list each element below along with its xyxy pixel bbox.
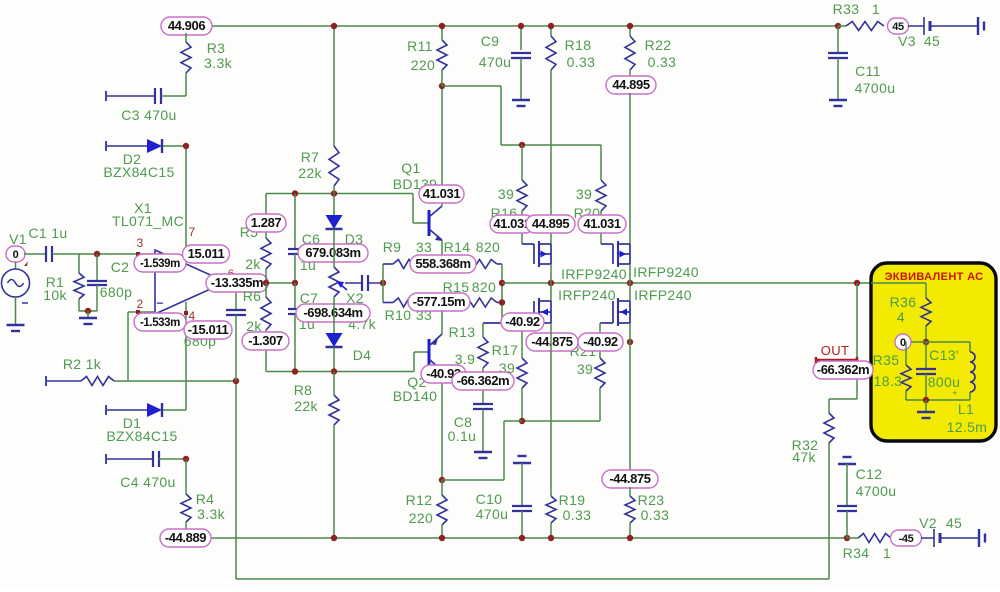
resistor R7 22k [333,26,335,146]
svg-text:OUT: OUT [821,343,850,358]
svg-text:R4: R4 [196,491,215,507]
diode D4 [333,297,335,333]
svg-text:0: 0 [13,249,19,261]
capacitor C5 680p feedback [235,283,237,310]
node oval -44.875 at R23 [602,470,658,488]
svg-text:39: 39 [576,186,592,202]
wire pin 2 [128,311,155,313]
svg-text:R34: R34 [843,545,870,561]
wire Q2 emitter [441,303,443,335]
svg-text:-45: -45 [899,533,914,545]
resistor R9 33 [383,263,393,265]
node oval -40.92 Q2 collector [421,365,466,383]
resistor R5 2k [265,194,267,239]
svg-text:33: 33 [416,239,432,255]
ground at V1 [7,325,25,331]
wire R11 to gate bias node [442,85,501,87]
svg-text:V2: V2 [919,515,937,531]
svg-text:-1.533m: -1.533m [140,317,180,329]
resistor R33 1 [835,23,841,29]
svg-text:L1: L1 [958,401,974,417]
resistor R10 33 [383,302,393,304]
svg-text:45: 45 [924,33,940,49]
capacitor C10 470u [521,463,523,506]
svg-text:470u: 470u [476,506,509,522]
wire op-amp output [226,282,295,284]
wire R1/C2 to ground [79,310,97,312]
svg-text:0: 0 [900,337,906,349]
wire gate row link [382,264,384,303]
svg-text:45: 45 [892,21,904,33]
svg-text:39: 39 [498,186,514,202]
ground at C8 [474,452,492,458]
wire Q2 collector [441,371,443,480]
svg-text:679.083m: 679.083m [305,245,360,260]
svg-text:44.906: 44.906 [168,18,206,33]
node oval 45 [888,18,909,34]
node oval -698.634m [296,304,370,322]
node oval -1.307 [242,332,289,350]
ground at V3 [978,17,984,35]
svg-text:C9: C9 [481,33,500,49]
svg-text:-1.539m: -1.539m [140,258,180,270]
svg-text:-66.362m: -66.362m [817,362,869,377]
svg-text:15.011: 15.011 [188,246,225,261]
battery V2 45 [921,537,934,539]
svg-text:0.33: 0.33 [641,507,670,523]
mosfet M3 IRFP240 [550,283,552,301]
svg-text:4700u: 4700u [856,483,897,499]
wire box bottom [906,399,970,401]
svg-text:0.33: 0.33 [648,54,677,70]
svg-text:3.3k: 3.3k [204,55,233,71]
node oval 1.287 [246,214,286,232]
inductor L1 12.5m [969,342,971,352]
svg-text:C13': C13' [929,347,959,363]
svg-text:-40.92: -40.92 [505,314,540,329]
diode D3 [333,194,335,216]
svg-text:41.031: 41.031 [583,216,621,231]
node oval -45 [891,530,922,546]
node 0 oval at V1 [6,246,25,262]
svg-text:0.33: 0.33 [567,54,596,70]
svg-text:C12: C12 [856,466,883,482]
ground at V2 [979,529,985,547]
svg-text:7: 7 [188,225,195,239]
wire output rail [502,282,871,284]
svg-text:BD140: BD140 [393,388,438,404]
svg-text:41.031: 41.031 [423,186,461,201]
mosfet M2 IRFP9240 [601,241,630,267]
svg-text:R10: R10 [385,307,412,323]
resistor R21 39 [599,323,601,358]
svg-text:R14: R14 [444,239,471,255]
node oval -15.011 [184,321,232,339]
svg-text:4700u: 4700u [855,80,896,96]
svg-text:R19: R19 [559,492,586,508]
svg-text:R8: R8 [294,382,313,398]
node oval -13.335m [206,274,268,292]
svg-text:-40.92: -40.92 [583,334,618,349]
svg-text:220: 220 [409,510,433,526]
capacitor C1 1u [46,246,52,262]
svg-text:22k: 22k [294,398,318,414]
svg-text:558.368m: 558.368m [415,256,470,271]
svg-text:-15.011: -15.011 [188,322,229,337]
resistor R11 220 [441,26,443,40]
node oval 679.083m [298,244,368,262]
svg-text:R7: R7 [301,149,320,165]
wire R35 top [906,341,926,343]
ground above C12 [838,457,856,464]
svg-text:Q1: Q1 [401,160,420,176]
svg-text:680p: 680p [100,284,133,300]
node oval -1.539m [134,254,186,272]
svg-text:R35: R35 [873,352,900,368]
svg-text:R23: R23 [638,492,665,508]
svg-text:C10: C10 [476,491,503,507]
wire Q2 base [413,352,415,372]
ground in box [917,412,935,418]
svg-text:C3 470u: C3 470u [121,107,176,123]
svg-text:2: 2 [136,297,143,311]
svg-text:220: 220 [411,57,435,73]
ground at C11 [829,100,847,106]
resistor R1 10k [78,254,80,273]
transistor Q2 BD140 [428,339,431,366]
svg-text:R33: R33 [833,1,860,17]
node oval 558.368m [410,255,476,273]
svg-text:41.031: 41.031 [493,216,531,231]
svg-text:2k: 2k [245,256,261,272]
potentiometer X2 4.7k [329,267,339,297]
resistor R18 0.33 [550,26,552,36]
node oval -40.92 lower gate 1 [501,313,544,331]
svg-text:R6: R6 [243,288,262,304]
svg-text:ЭКВИВАЛЕНТ АС: ЭКВИВАЛЕНТ АС [885,271,984,283]
capacitor C2 680p [96,254,98,281]
svg-text:−: − [156,296,163,310]
resistor R13 3.9 [482,323,484,337]
wire output to OUT node [856,283,858,399]
resistor R34 1 [844,535,850,541]
svg-text:3: 3 [136,236,143,250]
resistor R6 2k [265,283,267,297]
svg-text:10k: 10k [43,287,67,303]
node oval 41.031 upper gate 1 [490,215,534,233]
wire pin 4 supply [185,302,187,410]
wire to op-amp pin 3 [97,253,155,255]
transistor Q1 BD139 [428,210,431,236]
capacitor C6 1u [294,194,296,250]
ground above C10 [513,456,531,463]
node oval 15.011 [183,245,230,263]
svg-text:-698.634m: -698.634m [303,305,362,320]
svg-text:1: 1 [883,545,891,561]
node oval 44.895 at R22 [606,76,656,94]
svg-text:IRFP9240: IRFP9240 [561,266,627,282]
wire pin 7 supply [185,146,187,259]
wire Q1 base [412,194,414,224]
mosfet M4 IRFP240 [629,283,631,301]
capacitor C13' 800u [925,342,927,369]
resistor R35 18.3 [905,342,907,365]
wire Q1 collector [441,86,443,206]
svg-text:0.33: 0.33 [563,507,592,523]
svg-text:R22: R22 [645,37,672,53]
resistor R15 820 [462,298,497,307]
resistor R8 22k [333,372,335,396]
wire feedback bottom loop [235,381,237,579]
svg-text:45: 45 [946,515,962,531]
svg-text:V3: V3 [898,33,916,49]
svg-text:-44.875: -44.875 [531,334,572,349]
svg-text:18.3: 18.3 [874,373,903,389]
battery V3 45 [908,25,924,27]
zener D1 BZX84C15 [105,405,107,415]
svg-text:R12: R12 [406,492,433,508]
svg-text:R11: R11 [407,38,433,54]
wire bias return [522,420,600,422]
resistor R23 0.33 [629,323,631,471]
wire VAS mid rail [266,371,414,373]
svg-text:44.895: 44.895 [612,77,650,92]
node oval -66.362m OUT [813,361,873,379]
ground at C9 [512,100,530,106]
wire V1 to C1 [24,253,46,255]
svg-text:1.287: 1.287 [251,215,282,230]
wire -45V bottom rail [211,537,847,539]
node oval -40.92 lower gate 2 [578,333,623,351]
capacitor C12 4700u [846,464,848,506]
zener D2 BZX84C15 [105,141,107,151]
svg-text:D4: D4 [353,347,372,363]
resistor R36 4 [925,283,927,298]
capacitor C3 470u [105,91,107,101]
ground at R1/C2 [79,318,97,324]
svg-text:BZX84C15: BZX84C15 [106,428,177,444]
capacitor C4 470u [105,454,107,464]
svg-text:470u: 470u [479,54,512,70]
wire gate feed column [501,264,503,323]
svg-text:C1 1u: C1 1u [28,225,67,241]
svg-text:TL071_MC: TL071_MC [112,213,184,229]
svg-text:R18: R18 [565,37,592,53]
node oval -44.875 source 1 [526,333,578,351]
svg-text:+: + [952,388,958,398]
resistor R20 39 [600,145,602,180]
svg-text:1: 1 [872,1,880,17]
svg-text:C11: C11 [855,63,881,79]
node oval 44.906 [161,17,212,35]
svg-text:39: 39 [577,361,593,377]
svg-text:C2: C2 [111,259,130,275]
capacitor C9 470u [520,26,522,50]
wiper wire [345,282,362,284]
wire +45V top rail [212,25,838,27]
resistor R2 1k [45,376,47,386]
node oval 41.031 upper gate 2 [578,215,626,233]
resistor R12 220 [441,480,443,495]
svg-text:IRFP240: IRFP240 [558,287,616,303]
svg-text:-1.307: -1.307 [248,333,283,348]
node oval -577.15m [408,293,470,311]
node oval -1.533m [134,313,186,331]
source V1 sine [15,262,17,269]
svg-text:820: 820 [476,239,500,255]
node oval 41.031 [419,185,464,203]
resistor R19 0.33 [550,323,552,496]
op-amp X1 TL071_MC [155,250,226,314]
svg-text:R36: R36 [890,294,917,310]
svg-text:R17: R17 [492,342,519,358]
node oval -44.889 [160,529,211,547]
svg-text:BZX84C15: BZX84C15 [103,164,174,180]
svg-text:IRFP9240: IRFP9240 [633,264,699,280]
svg-text:-44.875: -44.875 [609,471,650,486]
resistor R16 39 [521,145,523,180]
wire L1 top [926,341,970,343]
svg-text:0.1u: 0.1u [448,428,477,444]
capacitor C7 1u [294,283,296,309]
svg-text:R9: R9 [383,239,402,255]
wire R2 to feedback node [114,380,236,382]
svg-text:-577.15m: -577.15m [413,294,465,309]
capacitor C8 0.1u [473,404,493,409]
svg-text:C4 470u: C4 470u [120,474,175,490]
svg-text:IRFP240: IRFP240 [634,287,692,303]
wire output rail inside box [871,282,926,284]
node oval 44.895 [526,215,575,233]
svg-text:3.3k: 3.3k [197,506,226,522]
svg-text:22k: 22k [298,165,322,181]
capacitor C11 4700u [837,26,839,52]
svg-text:44.895: 44.895 [532,216,570,231]
resistor R4 3.3k [185,459,187,494]
svg-text:-66.362m: -66.362m [457,373,509,388]
svg-text:12.5m: 12.5m [947,419,988,435]
svg-text:V1: V1 [9,231,27,247]
box speaker equivalent [871,263,996,441]
svg-text:47k: 47k [792,449,816,465]
resistor R22 0.33 [629,26,631,36]
wire VAS top [266,193,413,195]
capacitor C5 [362,275,368,291]
svg-text:4: 4 [897,309,905,325]
svg-text:820: 820 [472,279,496,295]
resistor R3 3.3k [185,33,187,42]
svg-text:-44.889: -44.889 [165,530,206,545]
resistor R14 820 [462,260,497,269]
svg-text:R13: R13 [449,324,476,340]
wire Q1 emitter [441,240,443,264]
node oval 0 in box [895,334,911,350]
resistor R17 39 [521,323,523,358]
node oval -66.362m VAS [452,372,514,390]
svg-text:R2 1k: R2 1k [63,356,102,372]
mosfet M1 IRFP9240 [522,241,551,267]
svg-text:R3: R3 [207,40,226,56]
resistor R32 47k [828,399,830,413]
